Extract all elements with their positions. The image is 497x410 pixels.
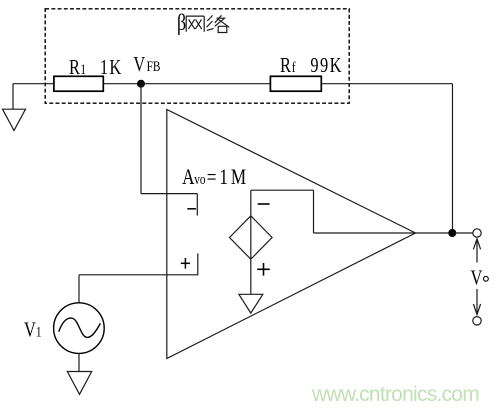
svg-text:V: V (133, 53, 145, 76)
wire: VFB to Rf (141, 83, 270, 85)
svg-text:R: R (280, 54, 291, 77)
op-amp U1 (triangle) (167, 110, 416, 359)
wire: V1 bottom lead (78, 353, 80, 371)
minus sign (inverting input) (187, 208, 196, 210)
ground (below dependent source) (239, 294, 263, 313)
svg-text:A: A (182, 165, 195, 190)
wire: R1 to node VFB (103, 83, 141, 85)
label β网络 (177, 11, 229, 36)
wire: to output node (314, 232, 453, 234)
source V1 (sine source) (54, 303, 105, 354)
wire: diamond top up (250, 190, 252, 216)
svg-text:f: f (292, 58, 296, 75)
wire: across top of dependent source (251, 189, 314, 191)
svg-text:1: 1 (36, 323, 42, 340)
svg-text:1: 1 (80, 61, 86, 78)
wire: feedback vertical down to output node (452, 84, 454, 233)
wire: down to output level (313, 190, 315, 233)
inverting input bar (196, 194, 198, 216)
terminal: output bottom (open circle) (473, 317, 481, 325)
wire: V1 to non-inverting input (79, 274, 198, 276)
non-inverting input bar (197, 253, 199, 274)
wire: Rf to feedback corner (321, 83, 452, 85)
arrow up (Vo polarity) (473, 239, 480, 263)
resistor Rf (270, 76, 321, 91)
svg-text:www.cntronics.com: www.cntronics.com (311, 383, 479, 406)
svg-text:FB: FB (147, 57, 161, 74)
ground (left, input side) (3, 84, 26, 131)
svg-text:β: β (177, 11, 186, 36)
svg-text:R: R (69, 56, 80, 79)
wire: diamond bottom to ground (250, 259, 252, 294)
wire: VFB down (140, 84, 142, 194)
feedback network dashed box (beta network) (45, 9, 349, 103)
resistor R1 (54, 76, 103, 91)
node VFB (junction dot) (137, 80, 145, 88)
wire: V1 top lead (78, 275, 80, 303)
label Rf 99K (280, 54, 343, 77)
label Vo (470, 267, 488, 290)
arrow down (Vo polarity) (473, 289, 480, 315)
minus sign (dependent source top) (258, 203, 270, 205)
wire: output node to terminal (452, 232, 472, 234)
wire: to inverting input (141, 193, 197, 195)
dependent source (diamond) (230, 216, 273, 259)
label R1 1K (69, 56, 123, 79)
svg-text:vo: vo (194, 170, 205, 187)
plus sign (non-inverting input) (181, 258, 190, 269)
svg-text:1K: 1K (100, 56, 123, 79)
terminal: output top (open circle) (473, 229, 481, 237)
plus sign (dependent source bottom) (257, 263, 270, 276)
wire: left end to R1 (13, 83, 55, 85)
label V1 (24, 318, 42, 341)
label Avo=1M (182, 165, 249, 190)
label VFB (133, 53, 160, 76)
svg-text:V: V (470, 267, 482, 290)
svg-text:=1M: =1M (207, 165, 249, 190)
ground (below V1) (67, 372, 91, 395)
node: output junction dot (448, 229, 456, 237)
svg-text:99K: 99K (310, 54, 342, 77)
svg-text:V: V (24, 318, 36, 341)
